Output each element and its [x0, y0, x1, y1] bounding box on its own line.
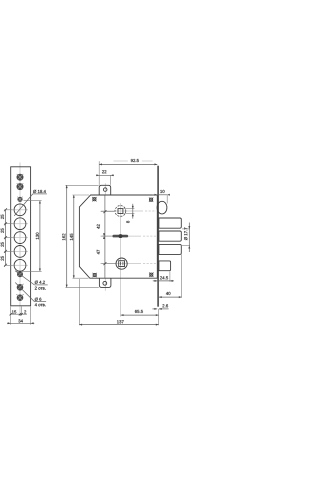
spindle hole circle dashed: [115, 206, 126, 217]
hub circle with square: [116, 258, 127, 269]
large hole 2: [12, 218, 28, 230]
centerline keyhole horizontal: [102, 235, 156, 237]
centerline faceplate axis: [19, 163, 21, 317]
screw hole dia6 lower 1: [17, 284, 24, 291]
label dia 4.2 2 holes: [15, 271, 48, 290]
dimension 92.5: [99, 159, 157, 185]
dimension column 25 pitch: [1, 208, 13, 266]
large hole 1 dia18.4: [12, 204, 28, 216]
label dia 6 4 holes: [15, 283, 46, 307]
screw symbol top left: [92, 197, 96, 201]
screw symbol bottom left: [93, 273, 97, 277]
dimension 137: [79, 279, 158, 326]
dimension 145: [70, 195, 89, 278]
lock body outline: [79, 195, 157, 278]
front strip side view: [157, 166, 159, 307]
small hole dia4.2 upper: [17, 197, 22, 202]
spindle square 8mm: [118, 209, 123, 214]
dimension 40: [159, 255, 182, 299]
dimension 34: [7, 319, 34, 324]
dimension 162: [62, 185, 99, 287]
dimension 8 spindle square: [124, 204, 135, 223]
dimension 130: [24, 201, 42, 272]
deadbolt 1: [159, 218, 181, 228]
dimension dia 17.7: [182, 223, 190, 253]
centerline top tab axis: [104, 183, 106, 291]
dimension 65.5: [121, 309, 159, 325]
label dia 18.4: [14, 190, 47, 216]
auxiliary bolt: [159, 261, 171, 271]
dimension 22: [96, 170, 114, 185]
keyhole slot: [112, 234, 128, 238]
dimension 15 and 2: [10, 306, 31, 324]
screw hole dia6 lower 2: [17, 294, 24, 301]
screw symbol bottom right: [149, 273, 153, 277]
deadbolt 2: [159, 231, 181, 241]
centerline key axis vertical: [120, 203, 122, 317]
dimension 42 and 47: [97, 195, 116, 278]
small hole dia4.2 lower: [17, 271, 24, 278]
countersunk screw hole top 2: [17, 183, 24, 190]
large hole 5: [12, 259, 28, 271]
top mounting tab: [99, 185, 111, 195]
centerline hub horizontal: [102, 263, 157, 265]
countersunk screw hole top 1: [17, 174, 24, 181]
latch bolt circle: [157, 201, 167, 214]
dimension 24.5: [153, 271, 174, 282]
dimension 2.6 strip thickness: [152, 304, 168, 310]
dimension 10 latch protrusion: [152, 190, 170, 204]
bottom mounting tab: [99, 278, 111, 287]
faceplate outline: [11, 167, 31, 306]
large hole 3: [12, 232, 28, 244]
centerline spindle horizontal: [101, 210, 156, 212]
screw symbol top right: [149, 198, 153, 202]
large hole 4: [12, 246, 28, 258]
deadbolt 3: [159, 244, 181, 254]
